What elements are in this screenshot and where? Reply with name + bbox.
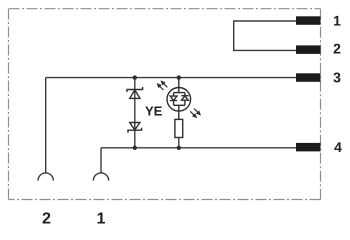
LED light ray lower-right A bbox=[194, 109, 200, 115]
terminal pad 1 bbox=[296, 16, 321, 25]
label YE bbox=[145, 107, 162, 116]
socket contact 2 bbox=[38, 173, 53, 181]
wire left drop to socket 2 bbox=[45, 78, 47, 173]
LED light ray upper-left B bbox=[162, 81, 168, 87]
wire suppressor branch bbox=[134, 78, 136, 148]
pin number 2 bbox=[334, 44, 341, 54]
junction top rail / suppressor bbox=[133, 75, 137, 79]
LED light ray upper-left A bbox=[158, 84, 164, 90]
contact number 2 bbox=[43, 212, 51, 223]
wire bridge between pads 1 and 2 bbox=[234, 21, 296, 50]
pin number 1 bbox=[334, 16, 341, 26]
wire top rail to pad 3 bbox=[46, 77, 296, 79]
LED light ray lower-right B bbox=[190, 111, 196, 117]
junction bottom rail / suppressor bbox=[133, 146, 137, 150]
resistor R1 bbox=[175, 119, 183, 137]
wire bottom rail to pad 4 bbox=[101, 147, 296, 149]
contact number 1 bbox=[98, 212, 105, 223]
terminal pad 4 bbox=[296, 143, 321, 152]
zener diode V1 bbox=[127, 87, 143, 98]
LED indicator U1 yellow bbox=[167, 78, 191, 120]
junction bottom rail / resistor bbox=[177, 146, 181, 150]
terminal pad 3 bbox=[296, 73, 321, 82]
wire resistor to bottom rail bbox=[178, 138, 180, 148]
zener diode V2 bbox=[128, 123, 142, 133]
terminal pad 2 bbox=[296, 45, 321, 54]
wire riser socket 1 bbox=[100, 148, 102, 173]
socket contact 1 bbox=[93, 173, 108, 181]
junction top rail / LED bbox=[177, 75, 181, 79]
pin number 3 bbox=[333, 73, 340, 83]
pin number 4 bbox=[334, 142, 341, 152]
